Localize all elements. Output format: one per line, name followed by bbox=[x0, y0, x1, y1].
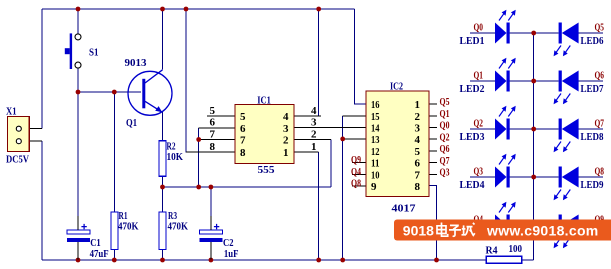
svg-text:470K: 470K bbox=[118, 222, 139, 233]
wire node A horizontal bbox=[163, 186, 332, 188]
wire IC1 pin2 down to node A bbox=[330, 140, 332, 188]
svg-text:R2: R2 bbox=[167, 142, 176, 153]
svg-text:2: 2 bbox=[415, 111, 421, 123]
op-amp IC1 555 timer bbox=[210, 94, 318, 176]
junction pin6 node A bbox=[196, 185, 201, 190]
wire IC2 pin15 stub bbox=[343, 115, 366, 117]
svg-text:7: 7 bbox=[240, 135, 246, 147]
junction R2 R3 node A bbox=[160, 185, 165, 190]
wire IC2 pin5 stub Q6 bbox=[429, 150, 437, 152]
svg-text:Q1: Q1 bbox=[474, 70, 484, 82]
svg-text:2: 2 bbox=[283, 135, 289, 147]
svg-text:3: 3 bbox=[311, 117, 317, 129]
wire C1 bottom lead bbox=[77, 241, 79, 260]
svg-text:Q8: Q8 bbox=[595, 166, 605, 178]
svg-text:100: 100 bbox=[509, 244, 523, 255]
wire Q1 base bbox=[78, 91, 141, 93]
wire IC2 pin13 stub bbox=[343, 138, 366, 140]
svg-text:Q7: Q7 bbox=[440, 155, 450, 167]
wire LED center column bbox=[533, 33, 535, 260]
svg-text:470K: 470K bbox=[168, 222, 189, 233]
junction IC2 pin13-15 ground rail bbox=[340, 258, 345, 263]
wire IC1 pin5 stub bbox=[207, 115, 235, 117]
svg-text:R1: R1 bbox=[119, 211, 128, 222]
wire Q1 collector to top rail bbox=[162, 9, 164, 70]
svg-text:6: 6 bbox=[415, 158, 421, 170]
wire IC1 pin8 stub bbox=[186, 151, 235, 153]
svg-text:LED2: LED2 bbox=[460, 83, 485, 95]
svg-text:9018: 9018 bbox=[403, 223, 434, 239]
junction LED row3 column bbox=[531, 127, 536, 132]
svg-text:Q3: Q3 bbox=[474, 166, 484, 178]
svg-text:Q3: Q3 bbox=[440, 167, 450, 179]
resistor R4 bbox=[486, 244, 523, 263]
junction C2 node A bbox=[209, 185, 214, 190]
wire S1 bottom lead bbox=[77, 69, 79, 93]
svg-text:LED7: LED7 bbox=[581, 83, 604, 95]
svg-text:IC2: IC2 bbox=[390, 81, 403, 93]
watermark banner bbox=[394, 220, 611, 241]
junction Q1 collector rail bbox=[160, 7, 165, 12]
svg-text:Q0: Q0 bbox=[474, 22, 484, 34]
glyph dian bbox=[437, 223, 448, 237]
wire IC2 pin11 stub Q9 bbox=[352, 162, 366, 164]
svg-text:4017: 4017 bbox=[392, 203, 417, 215]
svg-text:Q7: Q7 bbox=[595, 118, 605, 130]
resistor R2 bbox=[159, 141, 183, 177]
svg-text:R3: R3 bbox=[168, 211, 177, 222]
wire R2 bottom lead bbox=[162, 176, 164, 187]
svg-text:R4: R4 bbox=[486, 246, 498, 257]
wire IC2 pin4 stub Q2 bbox=[429, 138, 437, 140]
svg-text:DC5V: DC5V bbox=[6, 154, 30, 165]
svg-text:47uF: 47uF bbox=[90, 249, 109, 260]
wire IC2 pin15 and pin13 to bottom rail bbox=[342, 116, 344, 260]
wire C2 top lead bbox=[210, 187, 212, 230]
svg-text:Q6: Q6 bbox=[595, 70, 605, 82]
svg-text:LED1: LED1 bbox=[460, 35, 485, 47]
wire C1 top lead bbox=[77, 92, 79, 230]
LED LED3 bbox=[460, 106, 534, 143]
svg-text:S1: S1 bbox=[89, 48, 99, 59]
svg-text:IC1: IC1 bbox=[257, 94, 271, 106]
svg-text:7: 7 bbox=[415, 169, 421, 181]
wire IC2 pin7 stub Q3 bbox=[429, 173, 437, 175]
svg-text:X1: X1 bbox=[6, 107, 17, 118]
svg-text:3: 3 bbox=[415, 123, 421, 135]
wire IC1 pin4 stub bbox=[294, 115, 321, 117]
LED LED1 bbox=[460, 10, 534, 47]
svg-text:LED4: LED4 bbox=[460, 179, 485, 191]
svg-text:1: 1 bbox=[415, 99, 421, 111]
svg-text:1uF: 1uF bbox=[224, 249, 239, 260]
op-amp IC2 4017 counter bbox=[366, 81, 429, 215]
LED LED10 bbox=[534, 214, 610, 249]
junction C2 ground rail bbox=[209, 258, 214, 263]
LED LED7 bbox=[534, 70, 605, 105]
svg-text:5: 5 bbox=[240, 111, 246, 123]
wire R1 bottom lead bbox=[113, 250, 115, 261]
svg-text:LED8: LED8 bbox=[581, 131, 604, 143]
svg-text:www.c9018.com: www.c9018.com bbox=[486, 223, 599, 239]
wire left rail upper bbox=[41, 9, 43, 129]
glyph cheng bbox=[462, 223, 475, 236]
wire top rail bbox=[42, 8, 354, 10]
wire VCC to IC1 pin8 bbox=[186, 9, 199, 152]
svg-text:9: 9 bbox=[371, 181, 377, 193]
svg-text:6: 6 bbox=[240, 123, 246, 135]
junction LED row5 column bbox=[531, 223, 536, 228]
svg-text:555: 555 bbox=[258, 164, 276, 176]
svg-text:8: 8 bbox=[240, 147, 246, 159]
svg-text:Q8: Q8 bbox=[351, 178, 361, 190]
svg-text:LED3: LED3 bbox=[460, 131, 485, 143]
svg-text:Q6: Q6 bbox=[440, 143, 450, 155]
wire bottom rail bbox=[42, 259, 486, 261]
junction R3 ground rail bbox=[160, 258, 165, 263]
svg-text:Q2: Q2 bbox=[474, 118, 484, 130]
LED LED4 bbox=[460, 154, 534, 191]
svg-text:11: 11 bbox=[371, 158, 380, 170]
junction R1 base wire bbox=[112, 90, 117, 95]
junction S1 C1 base bbox=[76, 90, 81, 95]
wire IC2 pin9 stub Q8 bbox=[352, 185, 366, 187]
wire R1 top lead bbox=[113, 92, 115, 212]
wire IC2 pin6 stub Q7 bbox=[429, 162, 437, 164]
svg-text:C2: C2 bbox=[223, 238, 234, 249]
wire X1 pin1 lead bbox=[22, 128, 42, 130]
svg-text:10: 10 bbox=[371, 169, 380, 181]
svg-text:6: 6 bbox=[210, 117, 216, 129]
svg-text:Q1: Q1 bbox=[440, 108, 450, 120]
svg-text:8: 8 bbox=[415, 181, 421, 193]
svg-text:2: 2 bbox=[311, 128, 317, 140]
svg-text:5: 5 bbox=[415, 146, 421, 158]
svg-text:10K: 10K bbox=[167, 152, 184, 163]
switch S1 bbox=[65, 33, 99, 69]
LED LED6 bbox=[534, 22, 605, 57]
svg-text:LED9: LED9 bbox=[581, 179, 604, 191]
junction IC2 pin8 ground rail bbox=[434, 258, 439, 263]
wire IC2 pin8 to bottom rail bbox=[429, 186, 437, 260]
svg-text:Q9: Q9 bbox=[351, 154, 361, 166]
junction IC2 pin13 bbox=[340, 137, 345, 142]
capacitor C2 bbox=[200, 224, 239, 260]
LED LED5 bbox=[460, 202, 534, 239]
junction R1 ground rail bbox=[112, 258, 117, 263]
svg-text:Q4: Q4 bbox=[351, 166, 361, 178]
LED LED2 bbox=[460, 58, 534, 95]
svg-text:Q5: Q5 bbox=[595, 22, 605, 34]
wire R4 right lead bbox=[522, 259, 534, 261]
svg-text:1: 1 bbox=[311, 141, 317, 153]
connector X1 bbox=[6, 107, 30, 166]
svg-text:4: 4 bbox=[311, 105, 317, 117]
resistor R1 bbox=[111, 211, 139, 250]
wire IC1 pin2 stub bbox=[294, 139, 331, 141]
svg-text:13: 13 bbox=[371, 134, 380, 146]
svg-text:C1: C1 bbox=[90, 238, 101, 249]
wire C2 pin stubs bbox=[210, 216, 212, 260]
svg-text:16: 16 bbox=[371, 99, 380, 111]
wire Q1 emitter to R2 bbox=[162, 112, 164, 141]
wire IC1 pin1 stub bbox=[294, 151, 319, 153]
junction LED row2 column bbox=[531, 79, 536, 84]
svg-text:8: 8 bbox=[210, 141, 216, 153]
LED LED9 bbox=[534, 166, 605, 201]
svg-text:15: 15 bbox=[371, 111, 380, 123]
svg-text:12: 12 bbox=[371, 146, 380, 158]
wire IC1 pin1 to bottom rail bbox=[318, 152, 320, 260]
svg-text:3: 3 bbox=[283, 123, 289, 135]
junction IC1 pin1 ground rail bbox=[316, 258, 321, 263]
LED LED8 bbox=[534, 118, 605, 153]
svg-text:4: 4 bbox=[415, 134, 421, 146]
junction IC1 pin8 VCC rail bbox=[184, 7, 189, 12]
wire IC2 pin3 stub Q0 bbox=[429, 127, 437, 129]
wire IC1 pin6 stub bbox=[199, 127, 235, 129]
wire C1 pin stubs bbox=[77, 216, 79, 260]
wire IC2 pin2 stub Q1 bbox=[429, 115, 437, 117]
wire IC1 pin3 to IC2 pin14 bbox=[294, 127, 366, 129]
wire R3 bottom lead bbox=[162, 250, 164, 261]
svg-text:5: 5 bbox=[210, 105, 216, 117]
wire S1 top lead bbox=[77, 9, 79, 34]
wire IC1 pin6-pin7 to node A bbox=[198, 128, 200, 187]
svg-text:14: 14 bbox=[371, 123, 380, 135]
junction LED row1 column bbox=[531, 31, 536, 36]
svg-text:4: 4 bbox=[283, 111, 289, 123]
svg-text:9013: 9013 bbox=[125, 58, 147, 69]
wire top rail to IC2 pin16 bbox=[354, 9, 366, 104]
wire X1 pin2 to bottom rail bbox=[41, 141, 43, 260]
svg-text:Q5: Q5 bbox=[440, 96, 450, 108]
wire IC1 pin7 stub bbox=[199, 139, 235, 141]
svg-text:Q0: Q0 bbox=[440, 120, 450, 132]
junction C1 ground rail bbox=[76, 258, 81, 263]
glyph zi bbox=[449, 225, 461, 236]
svg-text:1: 1 bbox=[283, 147, 289, 159]
junction LED row4 column bbox=[531, 175, 536, 180]
junction IC1 pin4 rail bbox=[316, 7, 321, 12]
svg-text:7: 7 bbox=[210, 128, 216, 140]
svg-text:Q2: Q2 bbox=[440, 131, 450, 143]
junction S1 top rail bbox=[76, 7, 81, 12]
resistor R3 bbox=[159, 211, 188, 250]
junction IC1 pin7 bbox=[196, 137, 201, 142]
svg-text:LED6: LED6 bbox=[581, 35, 604, 47]
wire X1 pin2 lead bbox=[22, 140, 42, 142]
wire IC2 pin1 stub Q5 bbox=[429, 103, 437, 105]
wire IC1 pin4 to top rail bbox=[318, 9, 320, 116]
wire IC2 pin10 stub Q4 bbox=[352, 173, 366, 175]
transistor Q1 9013 bbox=[125, 58, 173, 129]
wire C2 bottom lead bbox=[210, 241, 212, 260]
svg-text:Q1: Q1 bbox=[126, 118, 137, 129]
wire R3 top lead bbox=[162, 187, 164, 212]
capacitor C1 bbox=[67, 224, 109, 260]
